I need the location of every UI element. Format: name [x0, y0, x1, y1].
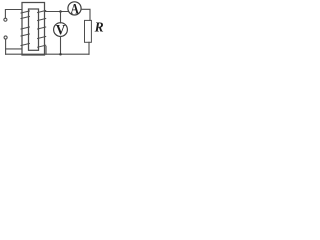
wire bottom rail	[6, 53, 89, 55]
ammeter U1 circle	[68, 2, 81, 15]
secondary winding turns (right limb)	[38, 11, 46, 48]
wire voltmeter branch lower	[60, 37, 62, 55]
wire voltmeter branch upper	[60, 12, 62, 23]
wire ammeter to resistor top	[81, 9, 90, 20]
wire primary bottom link	[6, 48, 22, 50]
transformer core outer rectangle	[22, 3, 45, 56]
node top (junction dot)	[59, 10, 62, 13]
svg-text:V: V	[56, 22, 66, 38]
node bottom (junction dot)	[59, 53, 62, 56]
wire terminal P2 down to bottom rail	[5, 39, 7, 54]
transformer core inner rectangle (window)	[29, 9, 39, 50]
terminal P1 (open circle)	[4, 18, 7, 21]
voltmeter U2 circle	[54, 23, 68, 37]
terminal P2 (open circle)	[4, 36, 7, 39]
wire secondary top to ammeter	[46, 11, 69, 13]
circuit schematic: transformer with ammeter A, voltmeter V, resistor R	[0, 0, 105, 64]
primary winding turns (left limb)	[21, 11, 29, 46]
svg-text:R: R	[94, 20, 104, 35]
resistor R body	[85, 20, 92, 42]
wire terminal P1 to primary top	[5, 10, 21, 19]
wire secondary bottom to bottom rail	[45, 47, 47, 55]
svg-text:A: A	[71, 2, 80, 18]
wire resistor bottom to bottom rail	[88, 42, 90, 54]
